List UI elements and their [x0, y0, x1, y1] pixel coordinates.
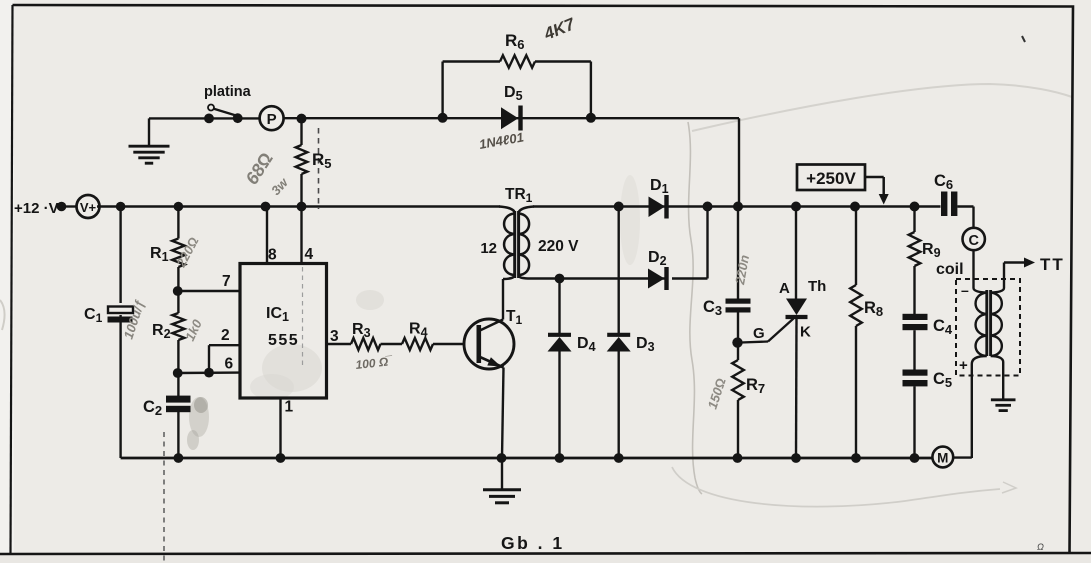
svg-text:+: + [959, 357, 968, 374]
svg-text:7: 7 [222, 273, 231, 290]
svg-text:Ω: Ω [1037, 542, 1044, 552]
svg-text:4: 4 [305, 246, 314, 263]
svg-text:M: M [937, 451, 948, 466]
svg-text:6: 6 [225, 356, 234, 373]
svg-text:V+: V+ [80, 200, 97, 215]
svg-text:220 V: 220 V [538, 238, 579, 255]
svg-text:C: C [968, 233, 979, 249]
svg-text:3: 3 [330, 328, 339, 345]
svg-text:TT: TT [1040, 255, 1065, 274]
svg-text:–: – [961, 282, 969, 298]
svg-text:12: 12 [480, 240, 497, 257]
svg-text:2: 2 [221, 327, 230, 344]
svg-text:8: 8 [268, 247, 277, 264]
svg-text:1: 1 [285, 399, 294, 416]
svg-text:platina: platina [204, 84, 252, 100]
svg-text:Gb . 1: Gb . 1 [501, 533, 565, 553]
svg-text:+12 ·V: +12 ·V [14, 200, 59, 217]
svg-text:A: A [779, 280, 790, 297]
svg-text:+250V: +250V [806, 169, 856, 188]
svg-text:G: G [753, 325, 765, 342]
svg-text:K: K [800, 324, 811, 341]
svg-text:555: 555 [268, 332, 299, 349]
svg-text:coil: coil [936, 261, 964, 278]
svg-text:Th: Th [808, 278, 826, 295]
svg-text:P: P [267, 111, 277, 128]
